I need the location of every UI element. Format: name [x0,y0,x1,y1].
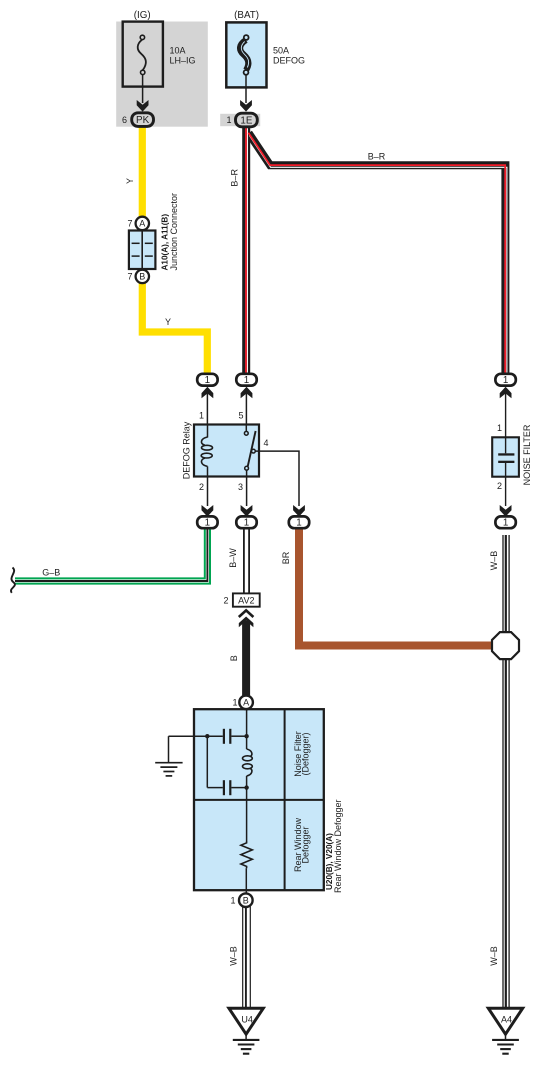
svg-text:7: 7 [127,219,132,229]
svg-text:1: 1 [296,518,301,529]
svg-text:W–B: W–B [229,946,239,966]
svg-text:B: B [139,272,145,282]
svg-text:A10(A), A11(B): A10(A), A11(B) [161,214,170,271]
svg-text:2: 2 [497,481,502,491]
svg-text:1: 1 [503,375,508,386]
svg-text:U4: U4 [241,1015,253,1025]
svg-text:1: 1 [205,375,210,386]
svg-text:NOISE FILTER: NOISE FILTER [522,424,532,485]
svg-text:5: 5 [238,411,243,421]
svg-text:1: 1 [199,411,204,421]
svg-text:DEFOG: DEFOG [273,55,305,65]
svg-text:Rear Window Defogger: Rear Window Defogger [333,799,343,893]
svg-text:3: 3 [238,482,243,492]
svg-text:7: 7 [127,272,132,282]
svg-text:W–B: W–B [489,946,499,966]
svg-text:6: 6 [122,115,127,125]
svg-text:(IG): (IG) [134,10,151,21]
svg-text:1: 1 [244,518,249,529]
svg-text:1: 1 [226,115,231,125]
svg-text:1E: 1E [240,115,252,126]
svg-text:1: 1 [230,895,235,905]
svg-text:A: A [243,698,249,708]
svg-text:B: B [243,895,249,905]
svg-text:AV2: AV2 [238,596,254,606]
svg-text:Y: Y [125,178,135,184]
svg-text:W–B: W–B [489,551,499,571]
svg-text:A4: A4 [501,1015,512,1025]
svg-text:B–R: B–R [229,169,239,187]
svg-text:Junction Connector: Junction Connector [169,193,179,271]
svg-text:DEFOG Relay: DEFOG Relay [181,421,191,479]
svg-text:1: 1 [503,518,508,529]
svg-text:1: 1 [244,375,249,386]
svg-text:G–B: G–B [42,567,60,577]
svg-text:Defogger: Defogger [301,826,311,863]
svg-text:10A: 10A [170,46,186,56]
svg-text:(BAT): (BAT) [234,10,259,21]
svg-text:2: 2 [223,596,228,606]
svg-text:Y: Y [165,317,171,327]
svg-text:B: B [229,655,239,661]
svg-text:A: A [139,219,145,229]
svg-text:BR: BR [281,551,291,564]
svg-text:2: 2 [199,482,204,492]
svg-text:1: 1 [497,423,502,433]
svg-text:LH–IG: LH–IG [170,55,196,65]
svg-text:(Defogger): (Defogger) [301,732,311,775]
svg-text:1: 1 [232,698,237,708]
svg-text:4: 4 [264,438,269,448]
svg-text:1: 1 [205,518,210,529]
svg-text:B–W: B–W [228,548,238,568]
svg-text:50A: 50A [273,46,289,56]
svg-text:B–R: B–R [368,152,386,162]
svg-text:PK: PK [136,115,150,126]
